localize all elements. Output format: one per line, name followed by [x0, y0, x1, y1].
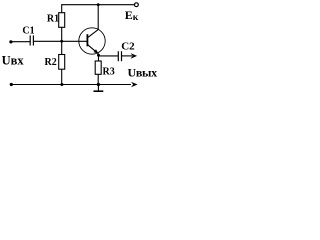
resistor R1 — [59, 4, 65, 41]
node collector junction — [97, 3, 100, 6]
terminal Ek — [135, 3, 139, 7]
label R2 — [45, 57, 57, 68]
resistor R3 — [95, 61, 101, 85]
wire collector — [97, 5, 99, 30]
node input top terminal — [9, 40, 12, 43]
svg-text:R1: R1 — [47, 14, 59, 25]
label C2 — [121, 41, 135, 53]
wire base — [33, 40, 87, 42]
node emitter junction — [97, 54, 100, 57]
label C1 — [22, 25, 34, 36]
wire bottom rail — [11, 84, 131, 86]
svg-text:R3: R3 — [103, 66, 115, 77]
svg-text:Uвх: Uвх — [2, 54, 25, 68]
label R1 — [47, 14, 59, 25]
capacitor C1 — [11, 35, 34, 45]
svg-text:C2: C2 — [121, 41, 135, 53]
node R3 bottom junction — [97, 83, 100, 86]
node R2 bottom junction — [60, 83, 63, 86]
wire top rail — [62, 4, 135, 6]
label Uvyx — [128, 66, 158, 80]
resistor R2 — [59, 41, 65, 84]
svg-text:R2: R2 — [45, 57, 57, 68]
label Uvx — [2, 54, 25, 68]
output arrow bottom — [131, 82, 138, 88]
label R3 — [103, 66, 115, 77]
wire emitter to R3 — [98, 55, 100, 61]
svg-text:Uвых: Uвых — [128, 66, 158, 80]
capacitor C2 — [99, 51, 122, 61]
label Ek — [125, 8, 139, 23]
ground — [94, 85, 104, 92]
node base junction — [60, 40, 63, 43]
node input bottom terminal — [10, 83, 13, 86]
output arrow top — [122, 53, 138, 59]
transistor Q1 — [79, 28, 105, 54]
svg-text:C1: C1 — [22, 25, 34, 36]
